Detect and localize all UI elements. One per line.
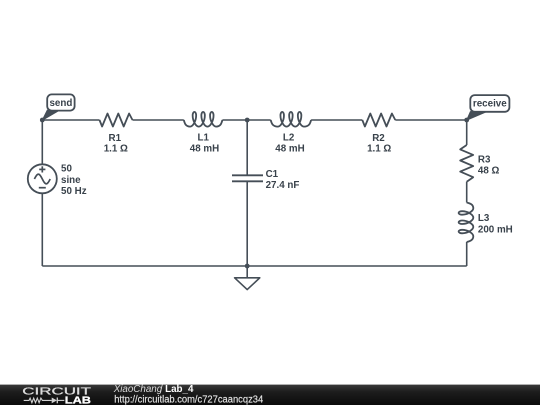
svg-text:C1: C1	[266, 169, 279, 180]
node send junction	[40, 118, 45, 123]
svg-text:1.1 Ω: 1.1 Ω	[367, 144, 391, 155]
svg-text:http://circuitlab.com/c727caan: http://circuitlab.com/c727caancqz34	[114, 394, 264, 405]
wire left vertical upper	[41, 120, 43, 164]
wire R3 to L3	[466, 182, 468, 203]
wire capacitor lower	[246, 181, 248, 266]
svg-text:L2: L2	[283, 133, 295, 144]
V1 value labels	[61, 164, 87, 197]
svg-text:L1: L1	[197, 133, 209, 144]
R1 labels	[104, 133, 128, 155]
voltage source V1 (sine)	[28, 164, 57, 193]
L1 labels	[190, 133, 219, 155]
wire bottom	[42, 265, 466, 267]
svg-text:XiaoChang: XiaoChang	[113, 384, 163, 395]
wire R2 to receive node	[395, 119, 466, 121]
svg-text:27.4 nF: 27.4 nF	[266, 180, 300, 191]
node C1 junction	[245, 118, 250, 123]
flag receive	[467, 95, 510, 120]
wire capacitor upper	[246, 120, 248, 175]
svg-text:48 Ω: 48 Ω	[478, 166, 500, 177]
svg-text:1.1 Ω: 1.1 Ω	[104, 144, 128, 155]
resistor R2	[362, 114, 395, 127]
L2 labels	[275, 133, 304, 155]
svg-text:R2: R2	[372, 133, 385, 144]
footer bar	[0, 385, 540, 405]
inductor L1	[184, 112, 223, 127]
C1 labels	[266, 169, 300, 191]
wire top-left segment	[42, 119, 99, 121]
svg-text:R3: R3	[478, 155, 491, 166]
node ground junction	[245, 264, 250, 269]
wire R1 to L1	[133, 119, 184, 121]
wire node to L2	[247, 119, 271, 121]
wire L3 to bottom	[466, 242, 468, 266]
wire left vertical lower	[41, 193, 43, 266]
svg-text:48 mH: 48 mH	[275, 144, 304, 155]
inductor L2	[271, 112, 311, 127]
svg-text:50 Hz: 50 Hz	[61, 186, 87, 197]
L3 labels	[478, 213, 513, 235]
credits line	[113, 384, 194, 395]
resistor R3	[460, 145, 473, 182]
svg-text:sine: sine	[61, 175, 81, 186]
svg-text:50: 50	[61, 164, 72, 175]
R2 labels	[367, 133, 391, 155]
svg-text:L3: L3	[478, 213, 490, 224]
svg-text:R1: R1	[109, 133, 122, 144]
R3 labels	[478, 155, 500, 177]
wire right vertical upper	[466, 120, 468, 145]
wire L1 to node	[222, 119, 247, 121]
inductor L3	[459, 203, 474, 243]
svg-text:200 mH: 200 mH	[478, 224, 513, 235]
svg-text:LAB: LAB	[65, 395, 91, 405]
svg-text:48 mH: 48 mH	[190, 144, 219, 155]
svg-text:send: send	[49, 98, 72, 109]
flag send	[42, 94, 74, 120]
wire L2 to R2	[311, 119, 362, 121]
svg-text:receive: receive	[473, 99, 507, 110]
CircuitLab logo	[22, 387, 91, 405]
svg-text:/: /	[160, 384, 163, 395]
node receive junction	[464, 118, 469, 123]
ground	[235, 266, 260, 290]
resistor R1	[100, 114, 133, 127]
capacitor C1	[232, 175, 263, 181]
svg-text:Lab_4: Lab_4	[165, 384, 194, 395]
